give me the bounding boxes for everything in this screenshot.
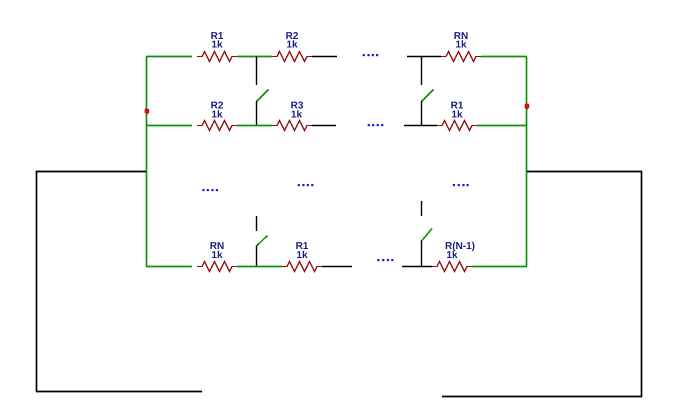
value 1k of RN (row 1) <box>456 40 467 47</box>
right terminal wire (black, to right rail) <box>442 172 642 397</box>
wire row2 after R3 black <box>312 125 336 127</box>
value 1k of R1 (row 2) <box>452 110 463 117</box>
switch SW3 broken top pin stub (col1 row3) <box>256 216 258 231</box>
label R1 (row 3) <box>296 242 308 249</box>
ellipsis dots middle set3 <box>453 184 469 186</box>
value 1k of RN (row 3) <box>212 251 223 258</box>
value 1k of R(N-1) (row 3) <box>447 251 458 258</box>
value 1k of R1 (row 3) <box>297 251 308 258</box>
wire row1 right green <box>481 56 527 58</box>
wire row3 right green <box>472 266 527 268</box>
label RN (row 3) <box>210 242 223 249</box>
switch SW4 bottom pin wire (col2 row3) <box>421 241 423 267</box>
switch SW1 bottom pin wire (col1 rows1-2) <box>256 101 258 125</box>
label R(N-1) (row 3) <box>446 242 475 251</box>
ellipsis dots middle set2 <box>298 184 314 186</box>
left rail (green vertical wire) <box>146 57 148 267</box>
label R1 (row 2) <box>451 102 463 109</box>
switch SW2 bottom pin wire (col2 rows1-2) <box>421 101 423 125</box>
ellipsis dots row1 <box>363 54 379 56</box>
resistor RN (row 1) <box>441 52 481 62</box>
label R1 (row 1) <box>211 32 223 39</box>
resistor R1 (row 3) <box>282 262 322 272</box>
ellipsis dots row3 <box>377 259 393 261</box>
wire row2 R2 to R3 green <box>237 125 272 127</box>
wire row3 left green <box>146 266 192 268</box>
switch SW1 blade (col1 rows1-2) <box>257 90 269 102</box>
wire row1 before RN black <box>407 56 441 58</box>
label RN (row 1) <box>454 32 467 39</box>
node dot right rail <box>525 104 530 110</box>
right rail (green vertical wire) <box>526 57 528 267</box>
resistor R1 (row 2) <box>437 121 477 131</box>
switch SW4 broken top pin stub (col2 row3) <box>421 201 423 216</box>
resistor R2 (row 1) <box>272 52 312 62</box>
wire row1 left green <box>146 56 192 58</box>
ellipsis dots middle set1 <box>202 189 218 191</box>
label R3 (row 2) <box>291 102 303 109</box>
wire row3 after R1 black <box>322 266 352 268</box>
wire row2 left green <box>146 125 192 127</box>
resistor RN (row 3) <box>197 262 237 272</box>
resistor R(N-1) (row 3) <box>432 262 472 272</box>
value 1k of R2 (row 1) <box>287 40 298 47</box>
switch SW2 top pin wire (col2 rows1-2) <box>421 57 423 86</box>
wire row3 RN to R1 green <box>237 266 282 268</box>
value 1k of R3 (row 2) <box>292 110 303 117</box>
label R2 (row 2) <box>211 102 223 109</box>
resistor R2 (row 2) <box>197 121 237 131</box>
label R2 (row 1) <box>286 32 298 39</box>
wire row1 after R2 black <box>312 56 337 58</box>
wire row3 before R(N-1) black <box>402 266 432 268</box>
resistor R3 (row 2) <box>272 121 312 131</box>
switch SW3 blade (col1 row3) <box>257 236 268 247</box>
resistor R1 (row 1) <box>197 52 237 62</box>
node dot left rail <box>145 109 150 115</box>
left terminal wire (black, to left rail) <box>37 172 203 392</box>
value 1k of R2 (row 2) <box>212 110 223 117</box>
wire row2 before R1 black <box>404 125 437 127</box>
ellipsis dots row2 <box>368 124 384 126</box>
switch SW1 top pin wire (col1 rows1-2) <box>256 57 258 86</box>
switch SW4 blade (col2 row3) <box>422 229 433 242</box>
value 1k of R1 (row 1) <box>212 40 223 47</box>
switch SW3 bottom pin wire (col1 row3) <box>256 246 258 267</box>
wire row1 R1 to R2 green <box>237 56 272 58</box>
wire row2 right green <box>477 125 527 127</box>
switch SW2 blade (col2 rows1-2) <box>422 90 434 102</box>
